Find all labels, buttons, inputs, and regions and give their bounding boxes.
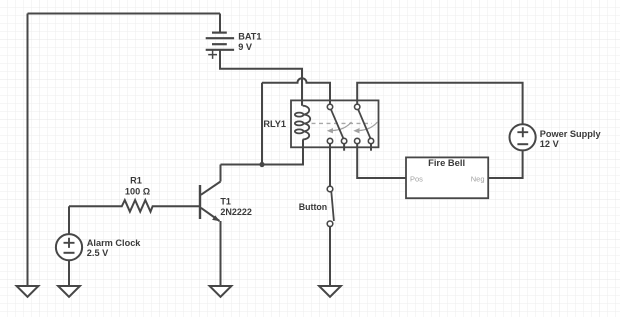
svg-text:Neg: Neg xyxy=(471,175,485,184)
wire collector bus to coil bottom xyxy=(221,140,304,165)
fire bell box xyxy=(406,157,488,198)
transistor T1 xyxy=(200,165,221,287)
ground (emitter) xyxy=(210,286,232,297)
svg-text:Fire Bell: Fire Bell xyxy=(428,157,465,168)
resistor R1 xyxy=(120,200,200,212)
ground (left rail) xyxy=(17,286,39,297)
junction dot xyxy=(259,162,264,167)
svg-text:2.5 V: 2.5 V xyxy=(87,248,109,258)
svg-text:BAT1: BAT1 xyxy=(238,32,261,42)
relay contact terminals xyxy=(327,104,373,143)
wire base to resistor xyxy=(69,205,120,207)
svg-text:Power Supply: Power Supply xyxy=(540,129,602,139)
wire fire bell Pos to contact K2 NO xyxy=(357,144,406,178)
svg-text:Pos: Pos xyxy=(410,175,423,184)
button switch xyxy=(327,186,334,226)
relay actuation dashed line xyxy=(312,122,373,124)
relay arrow 1 xyxy=(327,122,352,133)
svg-text:100 Ω: 100 Ω xyxy=(125,187,150,197)
ground (button) xyxy=(319,286,341,297)
svg-text:T1: T1 xyxy=(220,197,231,207)
wire contact K1 NO to button xyxy=(329,144,331,187)
battery BAT1 xyxy=(206,14,234,59)
wire left rail down xyxy=(27,14,29,287)
relay RLY1 box xyxy=(291,100,379,147)
svg-text:RLY1: RLY1 xyxy=(263,119,286,129)
wire junction riser xyxy=(261,83,263,165)
svg-text:R1: R1 xyxy=(130,175,142,185)
relay contact K1 blade xyxy=(331,109,344,139)
power supply source xyxy=(509,124,535,150)
stub contact K1 NC xyxy=(343,144,345,151)
svg-text:12 V: 12 V xyxy=(540,139,560,149)
svg-text:Button: Button xyxy=(299,202,327,212)
wire power supply to fire bell Neg xyxy=(488,150,522,178)
wire contact K2 common to power supply xyxy=(357,83,522,125)
stub contact K2 NC xyxy=(370,144,372,151)
wire alarm clock to resistor xyxy=(68,206,70,234)
wire top from battery to left rail xyxy=(28,13,221,15)
relay coil xyxy=(295,106,310,140)
svg-text:2N2222: 2N2222 xyxy=(220,207,252,217)
alarm clock source xyxy=(56,234,82,260)
relay contact K2 blade xyxy=(358,109,371,139)
wire alarm clock to ground xyxy=(68,260,70,286)
svg-text:Alarm Clock: Alarm Clock xyxy=(87,238,142,248)
wire battery bottom to relay coil top xyxy=(220,50,302,106)
svg-text:9 V: 9 V xyxy=(238,42,253,52)
wire with hop to contact K1 common xyxy=(262,78,330,104)
relay arrow 2 xyxy=(353,122,377,133)
wire button to ground xyxy=(329,227,331,286)
ground (alarm clock) xyxy=(58,286,80,297)
